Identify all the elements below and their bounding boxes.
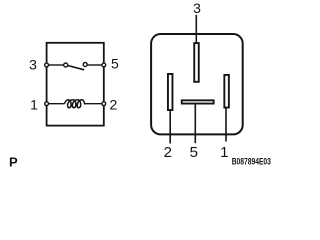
svg-text:2: 2: [110, 97, 118, 113]
pin 1 slot: [224, 75, 229, 108]
relay internal-circuit box: [47, 43, 104, 126]
pin 2 leader line: [169, 110, 171, 144]
svg-text:5: 5: [190, 144, 198, 161]
terminal 3 circle on box edge: [45, 63, 49, 67]
relay coil L: [65, 100, 87, 108]
svg-text:2: 2: [164, 144, 172, 161]
pin 2 slot: [168, 74, 173, 110]
svg-text:P: P: [9, 154, 18, 169]
wire coil to terminal2: [86, 103, 102, 105]
terminal 5 circle on box edge: [102, 63, 106, 67]
switch contact circle left: [64, 63, 68, 67]
wire terminal3 to switch contact: [48, 64, 64, 66]
svg-text:1: 1: [220, 144, 228, 161]
svg-text:5: 5: [111, 56, 119, 72]
svg-text:B087894E03: B087894E03: [232, 157, 271, 167]
terminal 1 circle on box edge: [45, 102, 49, 106]
pin 3 slot: [194, 43, 199, 82]
wire terminal1 to coil: [48, 103, 64, 105]
terminal 2 circle on box edge: [102, 102, 106, 106]
connector body outline (pin-face view): [151, 34, 243, 134]
switch contact circle right: [83, 63, 87, 67]
switch blade: [68, 66, 85, 70]
pin 3 leader line: [195, 15, 197, 43]
svg-text:3: 3: [193, 0, 201, 16]
svg-text:3: 3: [29, 56, 37, 72]
pin 1 leader line: [225, 108, 227, 142]
wire switch to terminal5: [87, 64, 102, 66]
pin 5 leader line: [194, 104, 196, 144]
svg-text:1: 1: [30, 97, 38, 113]
pin 5 slot: [182, 100, 214, 103]
